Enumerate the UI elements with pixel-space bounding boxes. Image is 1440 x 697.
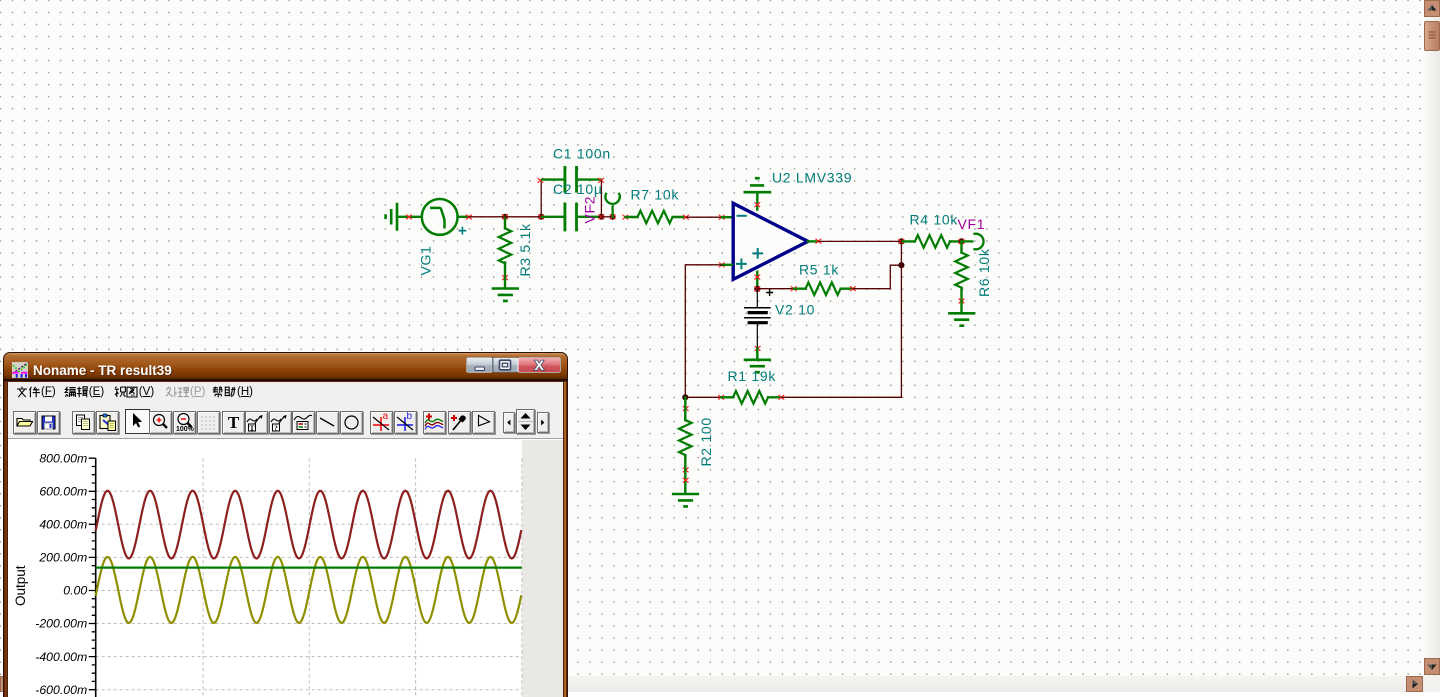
VCC power symbol (745, 178, 770, 192)
svg-text:V2 10: V2 10 (775, 302, 815, 318)
svg-text:800.00m: 800.00m (39, 451, 87, 465)
svg-text:VF2: VF2 (582, 196, 598, 224)
node D (V2 plus / R5) (754, 286, 760, 292)
capacitor C2 10u (542, 204, 600, 230)
voltage pin VF2 (610, 214, 616, 220)
label + of VG1 (459, 228, 465, 234)
output pin of U2 (808, 240, 817, 242)
node E (898, 262, 904, 268)
svg-text:R5 1k: R5 1k (799, 262, 839, 278)
wire ground to VG1 (397, 216, 422, 218)
svg-text:C2 10µ: C2 10µ (553, 181, 603, 197)
wire R6 to ground (960, 301, 962, 312)
resistor R2 100 (683, 407, 688, 411)
svg-text:R7 10k: R7 10k (631, 187, 680, 203)
wire R3 to ground (504, 278, 506, 287)
ground (below R6) (949, 313, 974, 325)
ground (below V2) (745, 360, 770, 372)
window icon (12, 362, 28, 378)
resistor R5 1k (791, 287, 796, 291)
minimize button (467, 357, 493, 372)
ground (below R3) (493, 289, 518, 301)
node G (VF1/R6) (958, 238, 964, 244)
node A (502, 214, 508, 220)
svg-text:C1 100n: C1 100n (553, 146, 611, 162)
svg-text:VF1: VF1 (958, 216, 986, 232)
resistor R1 19k (719, 395, 724, 399)
TR result window (3, 352, 568, 697)
op-amp U2 triangle (733, 203, 808, 279)
wire node F down to R1 (900, 241, 902, 397)
capacitor C1 100n (542, 167, 601, 191)
svg-text:R6 10k: R6 10k (976, 248, 992, 297)
node F (898, 238, 904, 244)
wire C1 down to node C (600, 181, 602, 217)
wire R2 to ground (684, 470, 686, 493)
svg-text:-400.00m: -400.00m (35, 650, 87, 664)
node C (598, 214, 604, 220)
svg-text:200.00m: 200.00m (38, 551, 87, 565)
wire node H to R1 (685, 396, 721, 398)
svg-text:100%: 100% (176, 426, 195, 433)
wire node B up to C1 (540, 181, 542, 217)
maximize button (493, 357, 518, 372)
wire +input to left riser (685, 265, 722, 398)
op-amp plus mark (input) (737, 260, 746, 269)
svg-text:T: T (250, 423, 255, 432)
resistor R7 10k (623, 215, 628, 219)
node B (538, 214, 544, 220)
node H (R1/R2 junction) (682, 394, 688, 400)
resistor R3 5.1k (499, 217, 512, 278)
wire VG1 to node A (458, 216, 469, 218)
svg-text:R2 100: R2 100 (698, 417, 714, 466)
wire V2 to ground (756, 348, 758, 358)
battery plus label (767, 290, 773, 296)
pin stub U2 +input (719, 263, 724, 267)
svg-text:T: T (228, 413, 240, 432)
vertical scrollbar (1424, 0, 1440, 676)
ground (below R2) (673, 494, 698, 506)
wire node A to node B (505, 216, 541, 218)
horizontal scrollbar (0, 676, 1424, 692)
svg-text:VG1: VG1 (418, 245, 434, 275)
svg-text:b: b (407, 412, 413, 422)
svg-text:-200.00m: -200.00m (35, 617, 87, 631)
svg-text:X: X (535, 357, 545, 373)
svg-text:a: a (382, 412, 388, 422)
resistor R6 10k (955, 241, 968, 300)
wire node D to R5 (757, 288, 793, 290)
wire node C to VF2 pin (601, 216, 612, 218)
svg-text:-600.00m: -600.00m (35, 683, 87, 697)
svg-text:U2 LMV339: U2 LMV339 (772, 170, 852, 186)
svg-text:400.00m: 400.00m (39, 518, 87, 532)
svg-text:0.00: 0.00 (63, 584, 87, 598)
svg-text:Output: Output (13, 565, 28, 606)
op-amp plus mark (center) (753, 249, 762, 258)
svg-text:R4 10k: R4 10k (910, 212, 959, 228)
battery V2 10 (745, 289, 770, 348)
close button (518, 356, 561, 372)
wire output to node F (819, 240, 902, 242)
svg-text:R3 5.1k: R3 5.1k (517, 223, 533, 276)
wire R5 to node E (853, 265, 901, 289)
wire R1 to feedback riser (782, 396, 902, 398)
svg-text:600.00m: 600.00m (39, 485, 87, 499)
svg-text:R1 19k: R1 19k (728, 368, 777, 384)
voltage generator VG1 (422, 199, 458, 235)
wire R7 to U2 inverting input (686, 216, 721, 218)
ground (left of VG1) (386, 204, 397, 230)
power pin top of U2 (756, 194, 758, 210)
op-amp minus mark (738, 215, 746, 217)
svg-text:?: ? (274, 423, 278, 432)
resistor R4 10k (903, 235, 960, 248)
voltage pin VF1 (962, 234, 984, 250)
power pin bottom of U2 (756, 272, 758, 288)
